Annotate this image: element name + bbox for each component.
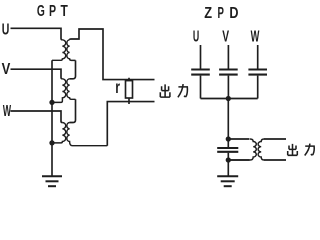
capacitor C0 (divider) leads <box>227 139 229 160</box>
svg-text:W: W <box>251 27 260 45</box>
capacitor C0 (divider) plates <box>217 148 238 152</box>
transformer T2 primary winding <box>52 79 66 103</box>
svg-text:W: W <box>3 103 11 120</box>
svg-text:r: r <box>115 78 120 98</box>
label 出力 (ZPD output) <box>288 144 315 156</box>
junction node: divider top <box>226 136 231 141</box>
transformer T3 secondary winding <box>67 123 107 146</box>
transformer T1 secondary winding <box>67 40 76 61</box>
resistor r body <box>126 81 133 98</box>
transformer T1 primary winding <box>52 40 66 60</box>
title ZPD <box>204 4 238 23</box>
svg-text:U: U <box>2 20 10 38</box>
junction node: divider bottom <box>226 157 231 162</box>
svg-text:Z: Z <box>204 5 212 23</box>
wire U phase into T1 primary <box>11 28 63 40</box>
junction node: bus center <box>226 96 231 101</box>
transformer T3 primary winding <box>52 123 66 143</box>
svg-text:P: P <box>217 4 224 22</box>
pickup transformer secondary winding <box>258 139 264 160</box>
junction node: T2 primary to neutral bus <box>49 100 54 105</box>
svg-text:D: D <box>229 5 238 23</box>
capacitor Cu (U phase) <box>200 45 202 99</box>
wire divider bottom to pickup transformer <box>228 159 249 161</box>
svg-text:P: P <box>49 2 56 20</box>
svg-text:G: G <box>37 2 45 20</box>
svg-text:V: V <box>2 61 11 78</box>
capacitor Cw (W phase) <box>257 45 259 99</box>
ground (GPT neutral earth) <box>42 176 62 186</box>
wire link T1 secondary to T2 secondary <box>70 60 76 78</box>
wire T3 secondary bottom to output (bottom route) <box>107 102 154 146</box>
wire divider bottom to ground <box>227 160 229 176</box>
label 出力 (GPT output) <box>160 84 187 97</box>
wire W phase into T3 primary <box>11 111 63 123</box>
wire bus down to divider node <box>227 99 229 140</box>
wire link T2 secondary to T3 secondary <box>70 99 76 122</box>
svg-text:V: V <box>222 27 229 45</box>
wire T1 secondary top to output (top route) <box>70 29 155 80</box>
wire neutral bus (primary star point to ground) <box>51 60 53 175</box>
ground (ZPD earth) <box>217 176 238 186</box>
resistor r leads <box>128 78 130 104</box>
svg-text:T: T <box>61 1 69 19</box>
svg-text:U: U <box>193 27 199 46</box>
transformer T2 secondary winding <box>67 79 76 99</box>
capacitor Cv (V phase) <box>227 45 229 99</box>
wire secondary output top <box>264 138 286 140</box>
title GPT <box>37 1 68 19</box>
junction node: T3 primary to neutral bus <box>49 140 54 145</box>
wire secondary output bottom <box>264 159 286 161</box>
wire divider top to pickup transformer <box>228 138 249 140</box>
wire V phase into T2 primary <box>11 69 63 79</box>
wire capacitor common bus <box>201 98 258 100</box>
pickup transformer primary winding <box>228 139 256 160</box>
